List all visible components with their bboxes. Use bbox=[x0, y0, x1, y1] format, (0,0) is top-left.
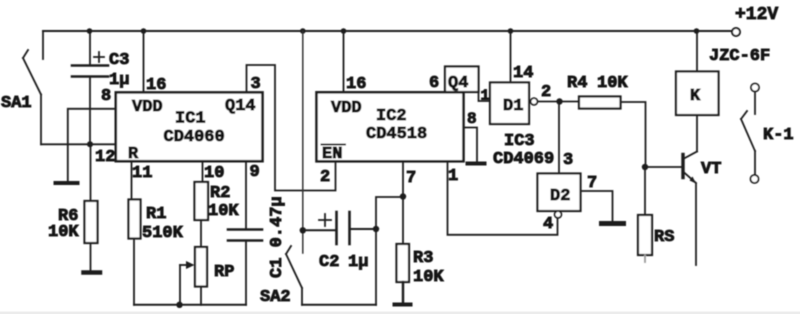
svg-text:VDD: VDD bbox=[331, 99, 362, 118]
svg-text:10: 10 bbox=[204, 164, 224, 183]
svg-text:16: 16 bbox=[146, 76, 166, 95]
wire D1 output bbox=[538, 101, 580, 103]
svg-text:1μ: 1μ bbox=[348, 253, 368, 272]
wire IC2 pin7 bbox=[402, 161, 404, 244]
svg-text:R: R bbox=[128, 145, 139, 164]
svg-text:+12V: +12V bbox=[735, 5, 778, 25]
wire D1 pin14 bbox=[510, 31, 512, 83]
node rail-C3 junction bbox=[87, 28, 93, 34]
terminal +12V bbox=[732, 28, 740, 36]
svg-text:R2: R2 bbox=[210, 184, 230, 203]
op-amp: IC1 CD4060 box bbox=[116, 92, 263, 161]
svg-text:3: 3 bbox=[563, 151, 573, 170]
node rail-K junction bbox=[694, 28, 700, 34]
wire IC1 pin8 to ground bbox=[68, 109, 116, 181]
svg-text:D2: D2 bbox=[550, 187, 570, 206]
svg-text:4: 4 bbox=[543, 215, 553, 234]
svg-text:SA1: SA1 bbox=[1, 94, 32, 113]
resistor R2 bbox=[202, 161, 204, 182]
node Q4 output box bbox=[445, 67, 479, 93]
wire IC1 pin12 bbox=[41, 143, 116, 145]
svg-text:RP: RP bbox=[214, 263, 234, 282]
svg-text:Q14: Q14 bbox=[225, 97, 256, 116]
svg-text:14: 14 bbox=[513, 64, 533, 83]
node C2 right junction bbox=[373, 226, 379, 232]
wire bottom SA2 to C2 net bbox=[302, 304, 376, 306]
svg-text:D1: D1 bbox=[503, 97, 523, 116]
svg-text:6: 6 bbox=[429, 74, 439, 93]
svg-text:C1 0.47μ: C1 0.47μ bbox=[268, 196, 287, 278]
ground (IC2 pin8) bbox=[468, 162, 485, 166]
resistor R4 bbox=[579, 97, 621, 109]
svg-text:IC1: IC1 bbox=[175, 110, 206, 129]
svg-text:IC3: IC3 bbox=[504, 132, 535, 151]
svg-text:K-1: K-1 bbox=[763, 126, 794, 145]
svg-text:VT: VT bbox=[701, 160, 721, 179]
resistor R1 bbox=[131, 161, 133, 200]
node transistor base junction bbox=[642, 164, 648, 170]
node RP wiper junction bbox=[176, 302, 182, 308]
node D1 out junction bbox=[556, 98, 562, 104]
wire IC2 pin1 to D2 pin4 bbox=[448, 161, 558, 235]
svg-text:3: 3 bbox=[251, 75, 261, 94]
svg-text:CD4069: CD4069 bbox=[493, 150, 554, 169]
wire Q4 to D1 input bbox=[479, 91, 491, 101]
switch SA1 bbox=[42, 31, 44, 59]
svg-text:EN: EN bbox=[322, 145, 342, 164]
op-amp: IC2 CD4518 box bbox=[317, 92, 464, 161]
svg-text:9: 9 bbox=[250, 163, 260, 182]
svg-text:2: 2 bbox=[541, 83, 551, 102]
svg-text:R3: R3 bbox=[413, 249, 433, 268]
switch K-1 bbox=[751, 84, 759, 92]
node rail-SA2 branch junction bbox=[300, 28, 306, 34]
switch SA2 bbox=[302, 31, 304, 253]
svg-text:10K: 10K bbox=[208, 202, 239, 221]
inverter D1 bbox=[490, 83, 529, 125]
svg-text:CD4518: CD4518 bbox=[366, 125, 427, 144]
ground (IC1 pin8) bbox=[56, 181, 78, 185]
svg-text:12: 12 bbox=[95, 148, 115, 167]
node D2 pin4 bubble bbox=[555, 211, 562, 218]
svg-text:C3: C3 bbox=[109, 51, 129, 70]
wire bottom oscillator net bbox=[134, 304, 246, 306]
node rail-IC1 pin16 junction bbox=[141, 28, 147, 34]
wire C2 right to pin7 net bbox=[376, 197, 403, 305]
svg-text:R1: R1 bbox=[146, 205, 166, 224]
wire IC1 pin16 bbox=[143, 31, 145, 92]
capacitor C3 bbox=[89, 31, 91, 65]
svg-text:SA2: SA2 bbox=[260, 288, 291, 307]
svg-text:10K: 10K bbox=[48, 223, 79, 242]
node pin7 junction bbox=[400, 193, 406, 199]
relay K bbox=[676, 72, 719, 116]
transistor Q VT bbox=[681, 155, 684, 178]
resistor R3 bbox=[397, 244, 410, 282]
svg-text:Q4: Q4 bbox=[448, 74, 468, 93]
node rail-IC2 pin16 junction bbox=[341, 28, 347, 34]
svg-text:8: 8 bbox=[467, 110, 477, 128]
node pin12/C3/R6 junction bbox=[87, 141, 93, 147]
svg-text:K: K bbox=[690, 87, 701, 106]
svg-text:VDD: VDD bbox=[132, 98, 163, 117]
svg-text:R4: R4 bbox=[567, 74, 587, 93]
svg-text:10K: 10K bbox=[597, 74, 628, 93]
svg-text:7: 7 bbox=[406, 169, 416, 188]
svg-text:2: 2 bbox=[320, 168, 330, 187]
ground (R6) bbox=[84, 270, 101, 275]
wire IC1 pin3 Q14 to IC2 pin2 bbox=[247, 65, 336, 191]
node C2 left junction bbox=[300, 227, 306, 233]
resistor RS bbox=[644, 167, 646, 215]
wire base node to VT bbox=[645, 166, 682, 168]
svg-text:11: 11 bbox=[132, 164, 152, 183]
wire IC2 pin16 bbox=[343, 31, 345, 92]
ground (R3) bbox=[395, 303, 411, 307]
svg-text:1μ: 1μ bbox=[109, 71, 129, 90]
wire D1 out to D2 in bbox=[558, 102, 560, 174]
svg-text:7: 7 bbox=[587, 174, 597, 193]
svg-text:IC2: IC2 bbox=[376, 107, 407, 126]
svg-text:C2: C2 bbox=[319, 253, 339, 272]
svg-text:JZC-6F: JZC-6F bbox=[709, 47, 770, 66]
wire IC2 pin8 to ground bbox=[464, 128, 478, 162]
inverter D2 bbox=[538, 174, 581, 212]
svg-text:510K: 510K bbox=[142, 224, 184, 243]
wire top +12V rail bbox=[43, 30, 732, 32]
node D1 output bubble bbox=[531, 98, 538, 105]
resistor R6 bbox=[90, 144, 92, 201]
svg-text:16: 16 bbox=[346, 75, 366, 94]
svg-text:1: 1 bbox=[481, 88, 490, 105]
potentiometer RP bbox=[195, 247, 207, 287]
node rail-D1 pin14 junction bbox=[508, 28, 514, 34]
ground (D2 pin7) bbox=[602, 221, 624, 226]
svg-text:CD4060: CD4060 bbox=[164, 128, 225, 147]
svg-text:10K: 10K bbox=[413, 268, 444, 287]
capacitor C2 bbox=[303, 229, 337, 231]
svg-text:RS: RS bbox=[654, 228, 674, 247]
scan smudges bottom bbox=[0, 312, 800, 314]
svg-text:8: 8 bbox=[101, 87, 111, 106]
svg-text:1: 1 bbox=[448, 167, 458, 186]
wire D2 pin7 to ground bbox=[581, 191, 613, 221]
capacitor C1 0.47u bbox=[245, 161, 247, 229]
